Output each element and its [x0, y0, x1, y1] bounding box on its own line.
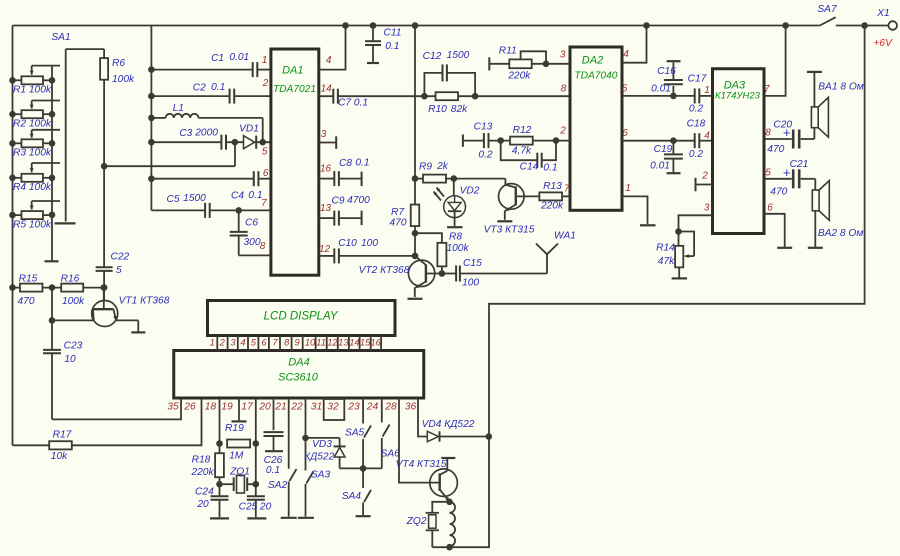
svg-text:C23: C23: [64, 340, 83, 351]
svg-text:5: 5: [251, 337, 257, 347]
svg-text:10: 10: [64, 354, 76, 365]
svg-text:8: 8: [765, 128, 771, 139]
svg-text:18: 18: [205, 401, 217, 412]
svg-text:C21: C21: [790, 159, 809, 170]
svg-text:4: 4: [326, 55, 332, 66]
svg-text:100k: 100k: [112, 74, 135, 85]
svg-text:R16: R16: [61, 274, 80, 285]
svg-text:2k: 2k: [436, 161, 449, 172]
svg-text:13: 13: [338, 337, 349, 347]
svg-text:20: 20: [196, 499, 209, 510]
svg-text:15: 15: [360, 337, 371, 347]
svg-text:14: 14: [321, 83, 333, 94]
svg-text:R9: R9: [419, 161, 432, 172]
svg-text:R14: R14: [656, 243, 675, 254]
svg-text:VD2: VD2: [460, 185, 480, 196]
svg-text:SA4: SA4: [342, 491, 362, 502]
svg-text:R10: R10: [428, 104, 447, 115]
svg-text:X1: X1: [876, 8, 889, 19]
svg-text:R1 100k: R1 100k: [13, 85, 52, 96]
svg-text:C1: C1: [211, 53, 224, 64]
svg-text:R2 100k: R2 100k: [13, 118, 52, 129]
svg-text:C2: C2: [193, 83, 206, 94]
svg-text:1: 1: [625, 183, 631, 194]
svg-text:14: 14: [349, 337, 359, 347]
svg-text:2: 2: [701, 171, 708, 182]
svg-text:VT4 КТ315: VT4 КТ315: [396, 459, 447, 470]
svg-text:R8: R8: [449, 232, 462, 243]
svg-text:SA1: SA1: [51, 32, 70, 43]
svg-text:C22: C22: [111, 252, 130, 263]
svg-text:C12: C12: [423, 51, 442, 62]
svg-text:C25: C25: [239, 502, 258, 513]
svg-text:TDA7040: TDA7040: [574, 70, 617, 81]
svg-text:5: 5: [622, 84, 628, 95]
svg-text:220k: 220k: [190, 467, 214, 478]
svg-text:C6: C6: [245, 217, 258, 228]
svg-text:0.01: 0.01: [651, 83, 671, 94]
svg-text:5: 5: [116, 265, 122, 276]
svg-text:SA5: SA5: [345, 427, 365, 438]
svg-text:16: 16: [320, 164, 332, 175]
svg-text:5: 5: [262, 146, 268, 157]
svg-text:0.1: 0.1: [266, 465, 280, 476]
svg-text:470: 470: [770, 187, 787, 198]
svg-text:VD4 КД522: VD4 КД522: [422, 419, 475, 430]
svg-text:3: 3: [321, 129, 327, 140]
svg-text:1500: 1500: [447, 50, 470, 61]
svg-text:100: 100: [361, 238, 378, 249]
svg-text:21: 21: [274, 401, 286, 412]
svg-text:7: 7: [564, 184, 570, 195]
svg-text:SA7: SA7: [817, 4, 837, 15]
svg-text:4: 4: [623, 49, 629, 60]
svg-text:C20: C20: [773, 119, 792, 130]
svg-text:19: 19: [221, 401, 233, 412]
svg-text:R19: R19: [225, 423, 244, 434]
svg-text:300: 300: [244, 237, 261, 248]
svg-text:R17: R17: [53, 429, 72, 440]
svg-text:R13: R13: [543, 181, 562, 192]
svg-text:SA3: SA3: [311, 469, 331, 480]
svg-text:C4: C4: [231, 191, 244, 202]
svg-text:VT1 КТ368: VT1 КТ368: [119, 295, 170, 306]
svg-text:220k: 220k: [540, 201, 564, 212]
svg-text:BA1 8 Ом: BA1 8 Ом: [818, 81, 864, 92]
svg-text:DA2: DA2: [582, 54, 603, 66]
svg-text:1M: 1M: [229, 450, 244, 461]
svg-text:R6: R6: [112, 58, 125, 69]
svg-text:C7 0.1: C7 0.1: [338, 98, 368, 109]
svg-text:R3 100k: R3 100k: [13, 148, 52, 159]
svg-text:R4 100k: R4 100k: [13, 182, 52, 193]
svg-text:R5 100k: R5 100k: [13, 219, 52, 230]
svg-text:C3: C3: [179, 128, 192, 139]
svg-text:8: 8: [561, 84, 567, 95]
svg-text:VD3: VD3: [312, 439, 332, 450]
svg-text:C24: C24: [195, 486, 214, 497]
svg-text:BA2 8 Ом: BA2 8 Ом: [818, 228, 864, 239]
svg-text:0.1: 0.1: [385, 41, 399, 52]
svg-text:32: 32: [327, 401, 339, 412]
svg-text:0.1: 0.1: [211, 82, 225, 93]
svg-text:C14: C14: [520, 162, 539, 173]
svg-text:100: 100: [462, 278, 479, 289]
svg-text:20: 20: [258, 401, 271, 412]
svg-text:C8: C8: [339, 158, 352, 169]
svg-text:C11: C11: [384, 28, 402, 39]
svg-text:8: 8: [284, 337, 290, 347]
svg-text:35: 35: [167, 401, 179, 412]
svg-text:2: 2: [262, 78, 269, 89]
svg-text:8: 8: [260, 241, 266, 252]
svg-text:1: 1: [210, 337, 215, 347]
svg-text:SC3610: SC3610: [278, 372, 319, 384]
svg-text:1: 1: [262, 55, 268, 66]
svg-text:82k: 82k: [451, 104, 468, 115]
svg-text:R15: R15: [19, 274, 38, 285]
svg-text:LCD DISPLAY: LCD DISPLAY: [264, 311, 339, 323]
svg-text:К174УН23: К174УН23: [715, 90, 761, 101]
svg-text:+6V: +6V: [873, 38, 893, 49]
svg-text:4700: 4700: [347, 195, 370, 206]
svg-text:0.01: 0.01: [650, 160, 670, 171]
svg-text:ZQ2: ZQ2: [406, 516, 427, 527]
svg-text:R7: R7: [391, 207, 404, 218]
svg-text:470: 470: [18, 296, 35, 307]
svg-text:C17: C17: [688, 73, 707, 84]
svg-text:3: 3: [560, 50, 566, 61]
svg-text:C13: C13: [474, 122, 493, 133]
svg-text:3: 3: [704, 202, 710, 213]
svg-text:C9: C9: [331, 196, 344, 207]
svg-text:WA1: WA1: [554, 231, 576, 242]
svg-text:0.2: 0.2: [478, 150, 492, 161]
svg-text:5: 5: [765, 167, 771, 178]
svg-text:0.01: 0.01: [229, 52, 249, 63]
svg-text:9: 9: [295, 337, 300, 347]
svg-text:10: 10: [305, 337, 316, 347]
svg-text:2000: 2000: [194, 127, 218, 138]
svg-text:C15: C15: [463, 258, 482, 269]
svg-text:R11: R11: [499, 46, 517, 57]
svg-text:36: 36: [405, 401, 417, 412]
svg-text:0.1: 0.1: [543, 163, 557, 174]
svg-text:100k: 100k: [446, 243, 469, 254]
svg-text:28: 28: [384, 401, 397, 412]
svg-text:7: 7: [261, 198, 267, 209]
svg-text:7: 7: [272, 337, 278, 347]
svg-text:VT2 КТ368: VT2 КТ368: [359, 265, 410, 276]
svg-text:L1: L1: [173, 103, 184, 114]
svg-text:6: 6: [261, 337, 267, 347]
svg-text:7: 7: [764, 84, 770, 95]
svg-text:24: 24: [366, 401, 379, 412]
svg-text:16: 16: [370, 337, 381, 347]
svg-text:2: 2: [559, 126, 566, 137]
svg-text:4: 4: [240, 337, 245, 347]
svg-text:12: 12: [327, 337, 338, 347]
svg-text:6: 6: [622, 128, 628, 139]
svg-text:ZQ1: ZQ1: [229, 466, 250, 477]
svg-text:20: 20: [259, 502, 272, 513]
svg-text:470: 470: [767, 144, 784, 155]
svg-text:23: 23: [347, 401, 360, 412]
svg-text:DA1: DA1: [282, 64, 303, 76]
svg-text:R12: R12: [513, 125, 532, 136]
svg-text:DA4: DA4: [288, 356, 309, 368]
svg-text:470: 470: [390, 217, 407, 228]
svg-text:22: 22: [290, 401, 303, 412]
svg-text:C18: C18: [687, 119, 706, 130]
svg-text:17: 17: [241, 401, 254, 412]
svg-text:КД522: КД522: [304, 451, 335, 462]
svg-text:R18: R18: [192, 454, 211, 465]
svg-text:1500: 1500: [183, 193, 206, 204]
svg-text:C5: C5: [166, 194, 179, 205]
svg-text:C19: C19: [654, 144, 673, 155]
svg-text:6: 6: [767, 203, 773, 214]
svg-text:0.2: 0.2: [689, 149, 703, 160]
svg-text:12: 12: [319, 244, 331, 255]
svg-text:SA2: SA2: [268, 480, 288, 491]
svg-text:10k: 10k: [51, 451, 68, 462]
svg-text:6: 6: [263, 168, 269, 179]
svg-text:VD1: VD1: [239, 123, 259, 134]
svg-text:0.2: 0.2: [689, 104, 703, 115]
svg-text:3: 3: [230, 337, 236, 347]
svg-text:1: 1: [704, 85, 710, 96]
svg-text:TDA7021: TDA7021: [273, 84, 316, 95]
svg-text:C10: C10: [338, 238, 357, 249]
svg-text:4: 4: [704, 130, 710, 141]
svg-text:31: 31: [311, 401, 322, 412]
svg-text:26: 26: [183, 401, 196, 412]
svg-text:4,7k: 4,7k: [512, 146, 532, 157]
svg-text:13: 13: [320, 203, 332, 214]
svg-text:11: 11: [316, 337, 326, 347]
svg-text:47k: 47k: [658, 256, 675, 267]
svg-text:C16: C16: [657, 66, 676, 77]
svg-text:VT3 КТ315: VT3 КТ315: [484, 224, 535, 235]
svg-text:2: 2: [219, 337, 226, 347]
svg-text:220k: 220k: [507, 71, 531, 82]
svg-text:0.1: 0.1: [355, 158, 369, 169]
svg-text:100k: 100k: [62, 296, 85, 307]
